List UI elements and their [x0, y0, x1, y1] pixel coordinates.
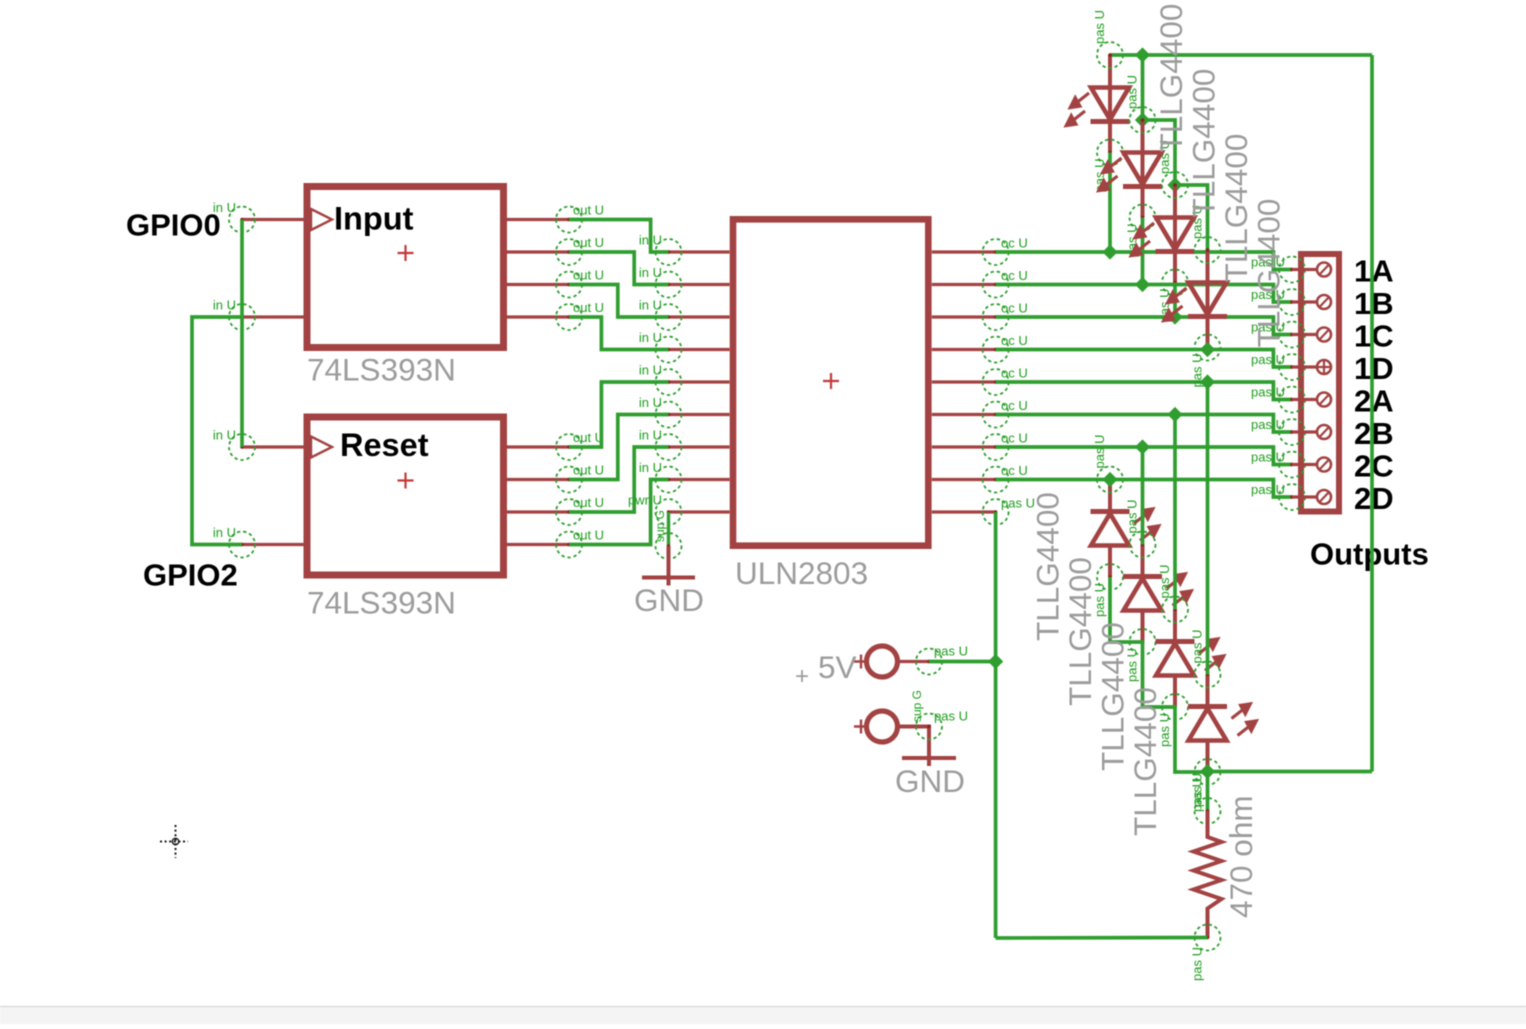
Reset left pin line y=544.5	[242, 543, 304, 546]
Input left pin line y=219.5	[242, 218, 304, 221]
svg-text:5V: 5V	[818, 649, 857, 685]
svg-text:pas U: pas U	[1251, 352, 1285, 367]
origin cross ULN2803	[823, 373, 839, 389]
ULN oc pin circle 7	[983, 434, 1009, 460]
LED D8 TLLG4400 (points up)	[1188, 675, 1258, 773]
wire D6 cathode up to oc7	[1141, 447, 1145, 545]
Input out pin circle 2	[556, 239, 582, 265]
wire ULN oc5 to connector pin 5	[996, 382, 1292, 400]
ULN oc pin circle 3	[983, 304, 1009, 330]
ULN oc pin line 8	[932, 478, 996, 481]
ULN in pin line 2	[669, 283, 730, 286]
LED D3 TLLG4400 anode pin	[1162, 172, 1188, 198]
ULN oc pin line 5	[932, 380, 996, 383]
Reset out pin circle 3	[556, 499, 582, 525]
Reset out pin circle 1	[556, 434, 582, 460]
svg-text:pas U: pas U	[1251, 417, 1285, 432]
junction resistor node	[1200, 764, 1215, 779]
+5V pin circle	[916, 649, 942, 675]
ULN oc pin line 7	[932, 445, 996, 448]
Reset out pin line 4	[507, 543, 570, 546]
74LS393N counter IC box (Input)	[307, 187, 504, 348]
ULN oc pin circle 5	[983, 369, 1009, 395]
svg-text:oc U: oc U	[1001, 431, 1028, 446]
LED D2 TLLG4400 anode pin	[1130, 107, 1156, 133]
Input out pin circle 4	[556, 304, 582, 330]
Reset left pin circle y=447.0	[229, 434, 255, 460]
Input out pin line 1	[507, 218, 570, 221]
ULN oc pin line 2	[932, 283, 996, 286]
junction oc4 / D4 cathode	[1200, 342, 1215, 357]
svg-text:GPIO2: GPIO2	[143, 558, 238, 593]
wire anode rail bottom to resistor junction	[1208, 770, 1373, 774]
resistor top pin	[1195, 798, 1221, 824]
wire ULN oc4 to connector pin 4	[996, 350, 1292, 368]
crosshair cursor	[160, 825, 188, 858]
ULN oc pin circle 1	[983, 239, 1009, 265]
ULN oc pin circle 6	[983, 402, 1009, 428]
ULN in pin circle 6	[656, 402, 682, 428]
ULN in pin line 8	[669, 478, 730, 481]
svg-text:pas U: pas U	[1190, 947, 1205, 981]
svg-text:sup G: sup G	[910, 690, 924, 722]
origin cross Input	[398, 245, 414, 261]
svg-text:in U: in U	[639, 395, 662, 410]
svg-text:oc U: oc U	[1001, 463, 1028, 478]
svg-text:Input: Input	[334, 201, 414, 237]
svg-text:pas U: pas U	[1157, 565, 1172, 599]
junction oc8 / D5 cathode	[1102, 472, 1117, 487]
svg-text:74LS393N: 74LS393N	[307, 585, 456, 621]
wire D7 cathode up to oc6	[1173, 415, 1177, 610]
LED D6 TLLG4400 cathode pin	[1130, 532, 1156, 558]
connector pin 2C	[1279, 452, 1305, 478]
wire Reset out2 to ULN in6	[569, 415, 669, 480]
svg-text:in U: in U	[639, 428, 662, 443]
svg-text:pas U: pas U	[1251, 450, 1285, 465]
svg-text:470 ohm: 470 ohm	[1223, 795, 1259, 918]
ULN in pin line 3	[669, 315, 730, 318]
ULN in pin line 7	[669, 445, 730, 448]
wire Reset out3 to ULN in7	[569, 447, 669, 512]
svg-text:pas U: pas U	[934, 644, 968, 659]
ULN oc pin line 1	[932, 250, 996, 253]
LED D6 TLLG4400 (points up)	[1123, 545, 1193, 643]
LED D4 TLLG4400 (points down)	[1163, 250, 1228, 348]
Input out pin line 2	[507, 250, 570, 253]
svg-text:GND: GND	[895, 763, 965, 799]
wire anode rail top	[1110, 53, 1372, 57]
Reset out pin line 1	[507, 445, 570, 448]
connector pin 2D	[1279, 484, 1305, 510]
svg-text:pas U: pas U	[934, 709, 968, 724]
svg-text:in U: in U	[213, 428, 236, 443]
wire ULN COM down to resistor bottom rail	[994, 512, 998, 938]
ULN in pin circle 4	[656, 337, 682, 363]
svg-text:pas U: pas U	[1092, 435, 1107, 469]
wire D1 cathode to oc1	[1108, 153, 1112, 253]
LED D5 TLLG4400 anode pin	[1097, 564, 1123, 590]
svg-text:out U: out U	[573, 495, 604, 510]
GND pin circle	[916, 714, 942, 740]
svg-text:pas U: pas U	[1251, 385, 1285, 400]
wire D2 cathode to oc2	[1141, 218, 1145, 285]
ULN in pin circle 5	[656, 369, 682, 395]
wire anode rail right vertical	[1370, 55, 1374, 772]
Reset out pin circle 4	[556, 532, 582, 558]
window bottom bar	[0, 1007, 1526, 1024]
svg-text:out U: out U	[573, 268, 604, 283]
wire ULN oc6 to connector pin 6	[996, 415, 1292, 433]
Input left pin circle y=219.5	[229, 207, 255, 233]
junction +5V rail	[988, 654, 1003, 669]
clock triangle on Input pin	[311, 209, 332, 230]
wire Input out1 to ULN in1	[569, 220, 669, 253]
svg-text:oc U: oc U	[1001, 333, 1028, 348]
connector pin 1D	[1279, 354, 1305, 380]
svg-text:in U: in U	[639, 330, 662, 345]
wire D3 cathode to oc3	[1173, 283, 1177, 318]
svg-text:oc U: oc U	[1001, 398, 1028, 413]
wire Input out3 to ULN in3	[569, 285, 669, 318]
svg-text:pas U: pas U	[1251, 482, 1285, 497]
junction oc7 / D6 cathode	[1135, 439, 1150, 454]
+5V supply symbol	[867, 646, 898, 677]
svg-text:out U: out U	[573, 235, 604, 250]
svg-text:TLLG4400: TLLG4400	[1218, 134, 1254, 283]
LED D3 TLLG4400 (points down)	[1130, 185, 1195, 283]
svg-text:TLLG4400: TLLG4400	[1251, 199, 1287, 348]
Reset left pin line y=447.0	[242, 445, 304, 448]
connector pin 2A	[1279, 387, 1305, 413]
LED D1 TLLG4400 cathode pin	[1097, 140, 1123, 166]
LED D8 TLLG4400 cathode pin	[1195, 662, 1221, 688]
svg-text:GND: GND	[634, 582, 704, 618]
junction oc6 / D7 cathode	[1167, 407, 1182, 422]
+5V pin line	[898, 660, 930, 663]
svg-text:out U: out U	[573, 463, 604, 478]
svg-text:pas U: pas U	[1092, 10, 1107, 44]
junction oc5 / D8 cathode	[1200, 374, 1215, 389]
ULN2803 IC box U2	[733, 219, 928, 545]
LED D7 TLLG4400 (points up)	[1156, 610, 1226, 708]
junction oc1 / D1 cathode	[1102, 244, 1117, 259]
ULN in pin line 4	[669, 348, 730, 351]
wire +5V to vertical rail	[929, 660, 996, 664]
Input out pin line 3	[507, 283, 570, 286]
connector pin 2B	[1279, 419, 1305, 445]
ULN in pin line 1	[669, 250, 730, 253]
wire ULN pwr pin to GND symbol	[667, 512, 670, 546]
Reset out pin circle 2	[556, 467, 582, 493]
clock triangle on Reset pin	[311, 437, 332, 458]
ULN in pin circle 8	[656, 467, 682, 493]
wire Input out2 to ULN in2	[569, 252, 669, 285]
connector pin 1B	[1279, 289, 1305, 315]
ULN in pin circle 7	[656, 434, 682, 460]
Reset out pin line 3	[507, 510, 570, 513]
wire ULN oc2 to connector pin 2	[996, 285, 1292, 303]
wire Input out4 to ULN in4	[569, 317, 669, 350]
ULN oc pin line 4	[932, 348, 996, 351]
junction oc3 / D3 cathode	[1167, 309, 1182, 324]
svg-text:pas U: pas U	[1190, 773, 1205, 807]
GND supply pin circle	[656, 533, 682, 559]
wire ULN oc7 to connector pin 7	[996, 447, 1292, 465]
ULN in pin line 6	[669, 413, 730, 416]
wire anode feed snake top LEDs	[1143, 55, 1208, 250]
svg-text:ULN2803: ULN2803	[735, 555, 868, 591]
connector pin 1A	[1279, 257, 1305, 283]
resistor bottom pin	[1195, 925, 1221, 951]
LED D5 TLLG4400 cathode pin	[1097, 467, 1123, 493]
Reset left pin circle y=544.5	[229, 532, 255, 558]
svg-text:pas U: pas U	[1190, 630, 1205, 664]
wire GPIO2: Input pin2 to Reset pin2	[192, 317, 242, 545]
svg-text:TLLG4400: TLLG4400	[1186, 69, 1222, 218]
svg-text:74LS393N: 74LS393N	[307, 352, 456, 388]
wire Reset out1 to ULN in5	[569, 382, 669, 447]
wire D8 cathode up to oc5	[1206, 382, 1210, 675]
wire +5V rail to resistor bottom	[996, 936, 1208, 940]
connector pin 1C	[1279, 322, 1305, 348]
wire junction to resistor top	[1206, 772, 1210, 812]
ULN oc pin line 3	[932, 315, 996, 318]
svg-text:TLLG4400: TLLG4400	[1127, 687, 1163, 836]
LED D3 TLLG4400 cathode pin	[1162, 270, 1188, 296]
ULN pas (COM) pin	[932, 510, 996, 513]
LED D2 TLLG4400 cathode pin	[1130, 205, 1156, 231]
LED D1 TLLG4400 anode pin	[1097, 42, 1123, 68]
svg-text:TLLG4400: TLLG4400	[1030, 492, 1066, 641]
LED D7 TLLG4400 anode pin	[1162, 694, 1188, 720]
svg-text:in U: in U	[639, 460, 662, 475]
svg-text:out U: out U	[573, 300, 604, 315]
junction oc2 / D2 cathode	[1135, 277, 1150, 292]
svg-text:pas U: pas U	[1125, 75, 1140, 109]
ULN in pin circle 1	[656, 239, 682, 265]
svg-text:pas U: pas U	[1125, 500, 1140, 534]
ULN oc pin line 6	[932, 413, 996, 416]
LED D8 TLLG4400 anode pin	[1195, 759, 1221, 785]
GND supply symbol (near +5V)	[867, 711, 898, 742]
svg-text:in U: in U	[213, 298, 236, 313]
svg-text:oc U: oc U	[1001, 268, 1028, 283]
svg-text:TLLG4400: TLLG4400	[1153, 4, 1189, 153]
LED D5 TLLG4400 (points up)	[1091, 480, 1161, 578]
wire ULN oc3 to connector pin 3	[996, 317, 1292, 335]
ULN oc pin circle 2	[983, 272, 1009, 298]
ULN in pin line 5	[669, 380, 730, 383]
svg-text:TLLG4400: TLLG4400	[1062, 557, 1098, 706]
wire GPIO0: Input clk to Reset clk	[240, 220, 244, 448]
output pin header SV1	[1301, 254, 1339, 512]
ULN oc pin circle 4	[983, 337, 1009, 363]
Input out pin line 4	[507, 315, 570, 318]
junction D2 anode feed	[1135, 112, 1150, 127]
svg-text:Reset: Reset	[340, 427, 429, 463]
ULN pwr (GND) pin	[669, 510, 730, 513]
LED D1 TLLG4400 (points down)	[1065, 55, 1130, 153]
Reset out pin line 2	[507, 478, 570, 481]
svg-text:in U: in U	[213, 525, 236, 540]
svg-text:out U: out U	[573, 528, 604, 543]
svg-text:TLLG4400: TLLG4400	[1095, 622, 1131, 771]
svg-text:in U: in U	[639, 363, 662, 378]
74LS393N counter IC box (Reset)	[307, 417, 504, 575]
Input left pin circle y=317.0	[229, 304, 255, 330]
LED D7 TLLG4400 cathode pin	[1162, 597, 1188, 623]
ULN in pin circle 2	[656, 272, 682, 298]
LED D2 TLLG4400 (points down)	[1098, 120, 1163, 218]
wire ULN oc8 to connector pin 8	[996, 480, 1292, 498]
svg-text:in U: in U	[639, 265, 662, 280]
wire anode feed snake bottom LEDs	[1110, 577, 1208, 772]
Input left pin line y=317.0	[242, 315, 304, 318]
svg-text:in U: in U	[639, 298, 662, 313]
junction rail / LED2 feed	[1135, 47, 1150, 62]
svg-text:oc U: oc U	[1001, 366, 1028, 381]
svg-text:out U: out U	[573, 430, 604, 445]
Input out pin circle 3	[556, 272, 582, 298]
svg-text:Outputs: Outputs	[1310, 537, 1429, 572]
ULN oc pin circle 8	[983, 467, 1009, 493]
svg-text:+: +	[795, 663, 809, 690]
ULN in pin circle 3	[656, 304, 682, 330]
wire Reset out4 to ULN in8	[569, 480, 669, 545]
wire ULN oc1 to connector pin 1	[996, 252, 1292, 270]
svg-text:oc U: oc U	[1001, 236, 1028, 251]
Input out pin circle 1	[556, 207, 582, 233]
origin cross Reset	[398, 473, 414, 489]
LED D4 TLLG4400 anode pin	[1195, 237, 1221, 263]
svg-text:GPIO0: GPIO0	[126, 208, 221, 243]
svg-text:oc U: oc U	[1001, 301, 1028, 316]
LED D4 TLLG4400 cathode pin	[1195, 335, 1221, 361]
svg-text:out U: out U	[573, 203, 604, 218]
LED D6 TLLG4400 anode pin	[1130, 629, 1156, 655]
junction D3 anode feed	[1167, 177, 1182, 192]
